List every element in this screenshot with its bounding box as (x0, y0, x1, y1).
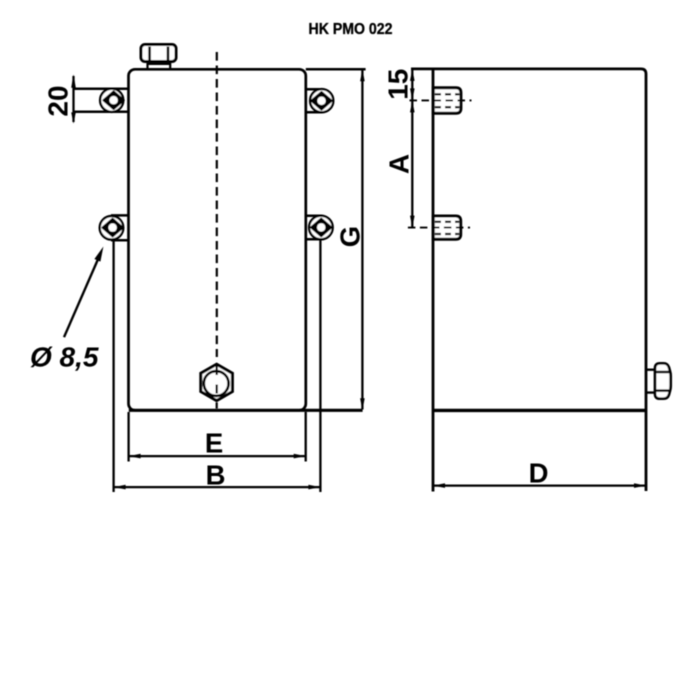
dimension D: arrows (433, 483, 646, 488)
inlet tube (upper left) (74, 89, 130, 112)
svg-text:B: B (206, 459, 226, 490)
stud upper: thread lines (435, 94, 459, 107)
dimension 15: dimension line (411, 70, 413, 101)
filler bolt facet lines (150, 47, 168, 61)
filler bolt neck (148, 62, 171, 70)
lug upper-right tab (305, 89, 322, 112)
dimension 20: dimension line (72, 76, 74, 122)
lug upper-right hole diamond (311, 92, 331, 110)
side view bottom thick line (433, 409, 646, 412)
lug upper-right circle (310, 89, 333, 112)
stud upper: body (433, 88, 461, 114)
drain plug hexagon (201, 364, 233, 400)
lug lower-left hole diamond (102, 219, 122, 237)
dimension E: dimension line (130, 455, 305, 457)
dimension G: arrows (360, 69, 365, 410)
centerline (vertical axis, front view) (216, 52, 218, 357)
outlet fitting neck (646, 370, 655, 393)
dimension A: arrows (410, 100, 415, 227)
svg-text:HK PMO 022: HK PMO 022 (309, 21, 393, 38)
dimension 15: arrows (410, 69, 415, 101)
dimension D: dimension line (434, 484, 645, 486)
lug lower-right hole diamond (311, 219, 331, 237)
svg-text:D: D (529, 457, 549, 488)
stud upper: centerline (410, 99, 472, 101)
lug lower-left circle (100, 216, 124, 240)
lug upper-left circle (100, 89, 123, 112)
filler bolt head (top) (141, 45, 176, 62)
side view body outline (411, 69, 646, 491)
stud lower: centerline (408, 227, 470, 229)
tank body (front view) (129, 69, 306, 410)
svg-text:15: 15 (382, 69, 413, 100)
outlet fitting facet lines (655, 372, 670, 391)
svg-text:Ø 8,5: Ø 8,5 (30, 342, 99, 373)
stud lower: body (433, 216, 460, 239)
svg-text:A: A (384, 154, 415, 174)
dimension B: arrows (114, 485, 321, 490)
drain plug circle (204, 371, 229, 396)
svg-text:E: E (205, 427, 223, 458)
dimension B: extension lines (114, 240, 321, 493)
lug upper-left hole diamond (103, 91, 123, 109)
dimension B: dimension line (115, 486, 320, 488)
stud lower: thread lines (435, 222, 459, 234)
svg-text:G: G (335, 226, 366, 247)
outlet fitting hex head (655, 363, 671, 398)
svg-text:20: 20 (43, 85, 74, 116)
dimension E: arrows (129, 454, 306, 459)
side view left wall (432, 69, 435, 492)
dimension A: dimension line (411, 101, 413, 227)
lug lower-right circle (309, 216, 333, 240)
centerline dashes over drain plug (216, 366, 218, 409)
dimension 20: arrows (71, 74, 76, 124)
lug lower-right tab (305, 216, 322, 239)
tank top edge extension to G dimension (306, 68, 366, 71)
tank bottom thick line + extension to G dimension (129, 409, 363, 412)
leader arrow for diameter 8,5 (64, 254, 101, 338)
dimension E: extension lines (129, 412, 306, 462)
lug lower-left tab (111, 215, 130, 240)
dimension G: dimension line (361, 70, 363, 410)
